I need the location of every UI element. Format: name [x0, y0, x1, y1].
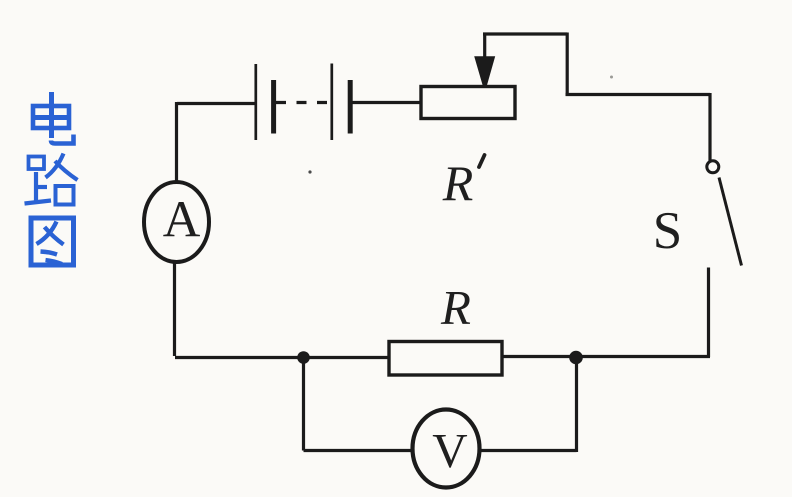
- svg-text:R: R: [440, 280, 471, 335]
- svg-text:S: S: [653, 202, 682, 260]
- svg-text:R: R: [442, 155, 474, 211]
- svg-text:A: A: [163, 192, 201, 249]
- svg-text:V: V: [432, 423, 467, 478]
